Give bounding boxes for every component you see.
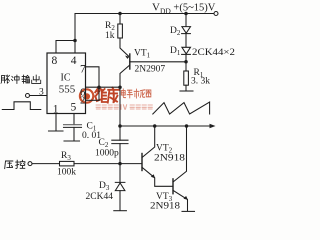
svg-text:VDD +(5~15)V: VDD +(5~15)V: [152, 1, 216, 15]
svg-text:D3: D3: [99, 181, 110, 192]
wire sawtooth output line: [120, 125, 210, 127]
node D2 top junction: [184, 12, 188, 16]
svg-text:3: 3: [39, 88, 44, 98]
watermark logo: [80, 88, 152, 110]
diode D1: [182, 47, 191, 54]
wire R2 top lead: [119, 14, 121, 25]
capacitor C2: [112, 140, 128, 143]
node VT3 collector junction: [185, 124, 189, 128]
node pin3 terminal: [26, 94, 30, 98]
ground below R1: [180, 90, 193, 92]
transistor VT1 base bar: [129, 54, 131, 69]
wire C1 bottom lead: [73, 127, 75, 140]
wire pin6 tie line: [86, 86, 121, 88]
svg-text:2CK44×2: 2CK44×2: [192, 47, 235, 58]
capacitor C1: [64, 124, 82, 126]
watermark 电子市场网: [121, 89, 151, 98]
resistor R3: [60, 161, 75, 166]
svg-text:VT1: VT1: [134, 49, 151, 60]
wire pin7 lead: [86, 67, 100, 101]
wire D3 top lead: [119, 164, 121, 183]
svg-text:C2: C2: [99, 138, 109, 149]
transistor VT2 base bar: [141, 154, 143, 171]
wire pin8 branch: [56, 41, 75, 54]
wire 压控 to R3: [32, 163, 60, 165]
svg-text:7: 7: [80, 63, 86, 75]
svg-text:2N918: 2N918: [150, 202, 180, 212]
svg-text:1000p: 1000p: [95, 149, 119, 159]
node VDD terminal: [214, 12, 218, 16]
pulse waveform symbol: [2, 102, 41, 110]
transistor VT1 collector: [120, 65, 130, 87]
wire D3 bottom lead: [119, 191, 121, 211]
wire R3 to junction: [74, 163, 120, 165]
diode D3: [115, 182, 125, 190]
svg-text:2N2907: 2N2907: [135, 65, 166, 75]
svg-text:8: 8: [52, 55, 58, 67]
watermark 维库: [95, 88, 119, 103]
node VT2 collector junction: [153, 124, 157, 128]
wire VDD rail: [76, 13, 214, 15]
svg-text:1: 1: [53, 104, 59, 116]
svg-text:4: 4: [71, 55, 77, 67]
transistor VT2 emitter: [142, 167, 173, 186]
transistor VT3 base bar: [172, 179, 174, 194]
svg-text:2: 2: [80, 96, 85, 107]
svg-text:2CK44: 2CK44: [86, 192, 114, 202]
transistor VT3 collector: [173, 126, 187, 182]
ground below C1: [64, 140, 80, 142]
node R2 top junction: [118, 12, 122, 16]
svg-text:D1: D1: [170, 46, 181, 57]
node junction pin8/pin4: [73, 39, 77, 43]
wire VT1 base lead: [130, 61, 186, 63]
node pin7 junction: [97, 85, 101, 89]
label 压控: [5, 160, 25, 168]
wire pin2 stub: [86, 99, 100, 101]
wire pin5 lead: [73, 114, 75, 125]
node sawtooth line left junction: [118, 124, 122, 128]
wire D2-D1: [185, 34, 187, 47]
ground pin1 bar: [49, 130, 64, 132]
wire node vertical to C2: [119, 87, 121, 140]
wire pin3: [30, 95, 48, 97]
svg-text:5: 5: [71, 101, 77, 113]
transistor VT3 emitter arrow: [183, 196, 187, 200]
wire rail left drop to pin4: [74, 14, 76, 54]
sawtooth waveform symbol: [153, 102, 210, 114]
IC U1 555 box: [47, 53, 86, 114]
svg-text:1k: 1k: [105, 31, 115, 41]
wire pin1 lead: [55, 114, 57, 131]
wire C2 bottom lead: [119, 144, 121, 164]
transistor VT1 emitter arrow: [125, 56, 129, 59]
svg-text:3. 3k: 3. 3k: [191, 77, 210, 87]
svg-text:R3: R3: [61, 151, 71, 162]
node 压控 terminal: [28, 162, 32, 166]
resistor R2: [118, 24, 123, 38]
transistor VT2 collector: [142, 126, 155, 158]
transistor VT2 emitter arrow: [151, 174, 155, 178]
svg-text:100k: 100k: [57, 168, 76, 178]
wire D1 to junction: [185, 54, 187, 61]
wire R1 bottom lead: [185, 85, 187, 90]
wire VT2 base lead: [120, 163, 142, 165]
ground below D3: [114, 210, 127, 212]
ground below VT3: [182, 210, 195, 212]
svg-text:IC: IC: [61, 73, 71, 84]
svg-text:555: 555: [59, 85, 76, 96]
diode D2: [182, 27, 191, 34]
resistor R1: [184, 71, 189, 85]
svg-text:D2: D2: [170, 26, 181, 37]
wire R1 top lead: [185, 62, 187, 71]
label 脉冲输出: [1, 75, 41, 83]
wire R2 bottom to VT1 emitter: [120, 38, 129, 56]
transistor VT3 emitter: [173, 190, 188, 211]
node tie-collector junction: [118, 85, 122, 89]
wire D2 top lead: [185, 14, 187, 27]
wire output arrowhead: [210, 124, 216, 128]
node C2/R3/D3/VT2 junction: [118, 162, 122, 166]
watermark tagline: [96, 105, 152, 109]
svg-text:2N918: 2N918: [154, 154, 185, 164]
node D1 bottom junction: [184, 60, 188, 64]
